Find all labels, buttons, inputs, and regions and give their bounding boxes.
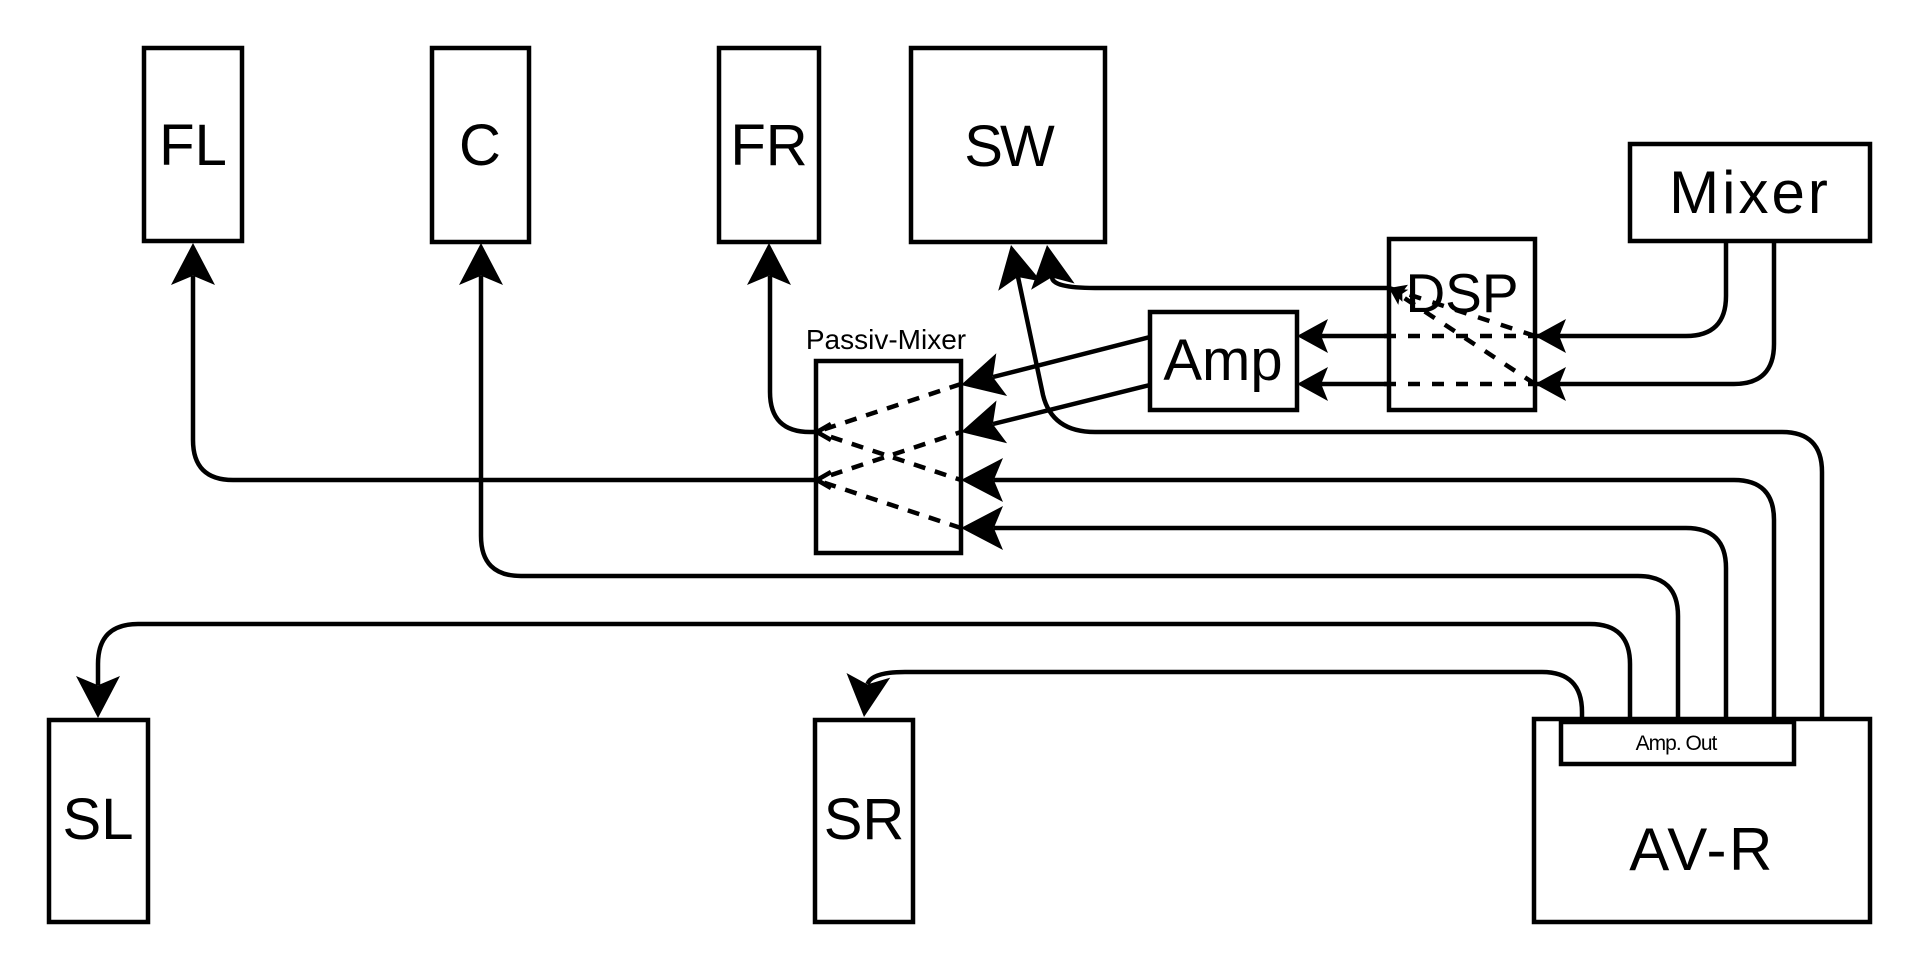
wire Amp to Passiv-Mixer port2 bbox=[993, 385, 1150, 424]
box Amp bbox=[1150, 312, 1297, 410]
DSP internal dashed diagonal ch2 to SW out bbox=[1389, 288, 1535, 384]
box SR bbox=[815, 720, 913, 922]
box Passiv-Mixer bbox=[816, 361, 961, 553]
arrowhead at DSP ch2 bbox=[1535, 367, 1566, 401]
svg-text:FL: FL bbox=[159, 113, 227, 178]
wire Passiv-Mixer portB to FL bbox=[193, 276, 816, 480]
Passiv-Mixer internal dashed port3 to portA (upper half) bbox=[816, 432, 884, 455]
wire AV-R to Passiv-Mixer port3 bbox=[994, 480, 1774, 722]
DSP internal arrowhead at SW out port bbox=[1389, 285, 1408, 302]
arrowhead at FL bbox=[171, 243, 215, 285]
svg-text:Passiv-Mixer: Passiv-Mixer bbox=[806, 324, 966, 355]
box DSP bbox=[1389, 239, 1535, 410]
svg-text:SR: SR bbox=[824, 787, 905, 852]
svg-text:Amp. Out: Amp. Out bbox=[1636, 732, 1718, 755]
wire AV-R to SW bbox=[1018, 277, 1822, 719]
Passiv-Mixer internal dashed port2 to portB (lower half) bbox=[816, 458, 884, 481]
box SW bbox=[911, 48, 1105, 242]
arrowhead at port1 bbox=[961, 353, 1007, 396]
arrowhead at SL bbox=[76, 676, 120, 718]
arrowhead at Amp ch2 bbox=[1297, 367, 1328, 401]
Passiv-Mixer internal dashed port2 to portB (upper half) bbox=[893, 432, 961, 455]
svg-text:SL: SL bbox=[63, 787, 134, 852]
svg-text:C: C bbox=[459, 113, 501, 178]
arrowhead at Amp ch1 bbox=[1297, 319, 1328, 353]
Passiv-Mixer internal dashed port1 to portA bbox=[816, 384, 961, 432]
DSP internal dashed channel 2 bbox=[1384, 382, 1540, 387]
wire Passiv-Mixer portA to FR bbox=[770, 276, 816, 432]
box Amp. Out bbox=[1561, 722, 1794, 764]
arrowhead at DSP ch1 bbox=[1535, 319, 1566, 353]
DSP internal dashed channel 1 bbox=[1384, 334, 1540, 339]
wire Amp to Passiv-Mixer port1 bbox=[993, 337, 1150, 377]
DSP internal dashed diagonal ch1 to SW out bbox=[1389, 288, 1535, 336]
svg-text:Amp: Amp bbox=[1163, 328, 1282, 393]
box AV-R bbox=[1534, 719, 1870, 922]
wire AV-R to SL bbox=[98, 624, 1630, 722]
Passiv-Mixer chevron arrowhead at portB bbox=[817, 472, 831, 488]
arrowhead at SW left bbox=[998, 245, 1041, 291]
arrowhead at port3 bbox=[961, 458, 1003, 502]
svg-text:DSP: DSP bbox=[1405, 262, 1518, 324]
box C bbox=[432, 48, 529, 242]
svg-text:FR: FR bbox=[730, 113, 807, 178]
arrowhead at SW right bbox=[1031, 245, 1075, 290]
wire AV-R Amp.Out to C bbox=[481, 276, 1678, 722]
Passiv-Mixer internal dashed port3 to portA (lower half) bbox=[893, 458, 961, 481]
wire AV-R to SR bbox=[868, 672, 1583, 722]
Passiv-Mixer internal dashed port4 to portB bbox=[816, 480, 961, 528]
wire DSP to Amp ch1 bbox=[1321, 334, 1389, 339]
arrowhead at SR bbox=[847, 673, 891, 717]
box SL bbox=[49, 720, 148, 922]
box Mixer bbox=[1630, 144, 1870, 241]
Passiv-Mixer chevron arrowhead at portA bbox=[817, 424, 831, 440]
svg-text:Mixer: Mixer bbox=[1669, 159, 1831, 226]
svg-text:SW: SW bbox=[964, 114, 1055, 179]
svg-text:AV-R: AV-R bbox=[1629, 816, 1775, 883]
arrowhead at port2 bbox=[961, 401, 1007, 444]
wire Mixer to DSP ch1 bbox=[1559, 241, 1726, 336]
arrowhead at FR bbox=[747, 243, 791, 285]
arrowhead at port4 bbox=[961, 506, 1003, 550]
wire DSP to Amp ch2 bbox=[1321, 382, 1389, 387]
wire DSP to SW bbox=[1052, 277, 1389, 288]
arrowhead at C bbox=[459, 243, 503, 285]
wire Mixer to DSP ch2 bbox=[1559, 241, 1774, 384]
box FL bbox=[144, 48, 242, 241]
box FR bbox=[719, 48, 819, 242]
wire AV-R to Passiv-Mixer port4 bbox=[994, 528, 1726, 722]
